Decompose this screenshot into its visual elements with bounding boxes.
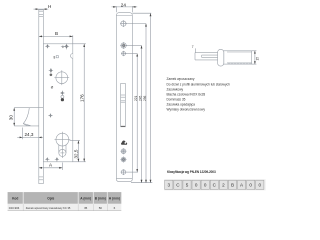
svg-text:0: 0 [195,182,198,187]
svg-text:Do drzwi z profili aluminiowyc: Do drzwi z profili aluminiowych lub stal… [167,82,231,86]
svg-text:A (mm): A (mm) [80,196,91,200]
svg-text:35: 35 [84,206,88,210]
svg-text:B (mm): B (mm) [95,196,106,200]
svg-text:Ø: Ø [51,86,54,90]
svg-text:0: 0 [259,182,262,187]
svg-text:8: 8 [54,55,56,59]
svg-text:15: 15 [255,57,259,61]
svg-text:Zasuwkowy: Zasuwkowy [167,87,184,91]
svg-text:Zamek wpuszczany: Zamek wpuszczany [167,77,195,81]
svg-text:H: H [48,4,51,9]
svg-text:5: 5 [186,182,189,187]
svg-text:B: B [55,31,58,36]
svg-text:H (mm): H (mm) [109,196,120,200]
svg-text:245: 245 [138,95,142,101]
svg-text:221: 221 [134,95,138,101]
svg-text:Blacha czołowa INOX 6x28: Blacha czołowa INOX 6x28 [167,93,206,97]
svg-text:176: 176 [80,94,85,102]
svg-text:2: 2 [222,182,225,187]
svg-text:50: 50 [99,206,103,210]
svg-text:Wymiary otworu/zewn.lowy: Wymiary otworu/zewn.lowy [167,108,206,112]
svg-text:Kod: Kod [12,196,18,200]
svg-text:3: 3 [168,182,171,187]
svg-text:0: 0 [204,182,207,187]
svg-text:256: 256 [143,95,147,101]
svg-text:A: A [49,162,53,167]
svg-text:Zamek wpuszczany zasuwkowy KC: Zamek wpuszczany zasuwkowy KC 35 [26,206,71,210]
svg-text:32,5: 32,5 [73,149,78,158]
svg-text:30: 30 [9,115,14,121]
svg-text:24: 24 [121,2,127,7]
svg-text:B: B [231,182,234,187]
svg-text:24,3: 24,3 [25,132,34,137]
svg-text:043-904: 043-904 [9,206,20,210]
svg-text:Opis: Opis [47,196,54,200]
svg-text:Zasuwka opadająca: Zasuwka opadająca [167,102,196,106]
svg-text:Klasyfikacja wg PN-EN 12209-20: Klasyfikacja wg PN-EN 12209-2003 [167,170,216,174]
svg-text:0: 0 [249,182,252,187]
svg-text:7: 7 [192,45,194,49]
svg-text:Dornmass 35: Dornmass 35 [167,97,186,101]
